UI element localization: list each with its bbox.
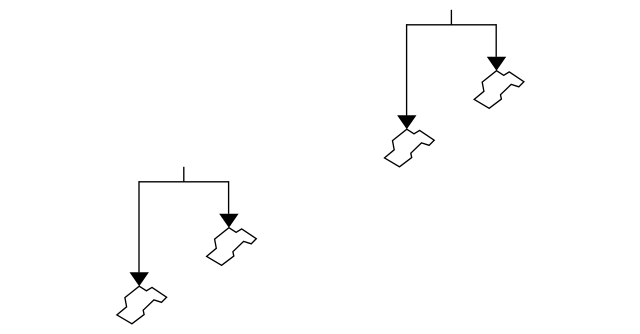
tree A left polygon node xyxy=(384,129,434,167)
tree B root tick wire xyxy=(183,167,185,182)
tree B (bottom left) xyxy=(117,167,256,324)
tree A (top right) xyxy=(384,10,523,167)
tree A right polygon node xyxy=(474,71,524,109)
tree B right arm wire xyxy=(228,181,230,214)
tree A root tick wire xyxy=(450,10,452,25)
tree A left arrowhead xyxy=(397,115,416,129)
tree B horizontal bar wire xyxy=(139,181,229,183)
tree B left arm wire xyxy=(138,181,140,272)
tree A right arrowhead xyxy=(487,57,506,71)
tree A right arm wire xyxy=(495,24,497,57)
tree B right polygon node xyxy=(207,228,257,266)
tree A left arm wire xyxy=(406,24,408,115)
tree A horizontal bar wire xyxy=(407,24,497,26)
tree B left arrowhead xyxy=(130,272,149,286)
tree B left polygon node xyxy=(117,286,167,324)
tree B right arrowhead xyxy=(219,214,238,228)
